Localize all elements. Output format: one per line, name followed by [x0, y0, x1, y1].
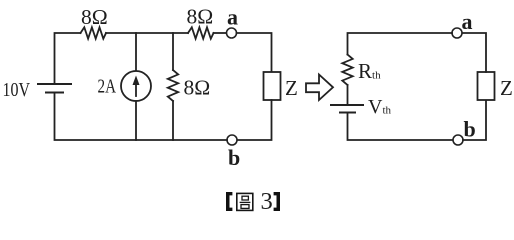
wire: shunt resistor branch top: [172, 33, 174, 70]
wire: Z to top-right corner to node a: [462, 33, 486, 72]
caption glyph for Chinese character tu (figure): [237, 193, 253, 210]
wire: Vth to bottom rail to node b: [348, 113, 454, 141]
svg-text:8Ω: 8Ω: [81, 5, 108, 29]
node b terminal (left circuit): [227, 135, 237, 145]
svg-text:a: a: [462, 9, 473, 34]
wire: top rail from R1 to R3 passing junctions: [106, 32, 188, 34]
wire: current source branch top: [135, 33, 137, 71]
current source I1 2A: [121, 71, 151, 101]
svg-text:3: 3: [261, 188, 273, 214]
wire: bottom rail from node b to battery: [55, 93, 228, 141]
wire: node b to bottom-right corner up to Z: [463, 100, 486, 140]
caption right lenticular bracket: [274, 192, 280, 211]
resistor R1 8ohm (top-left horizontal): [81, 27, 107, 38]
impedance Z box (left circuit): [264, 72, 281, 100]
node b terminal (thevenin): [453, 135, 463, 145]
svg-text:2A: 2A: [98, 77, 117, 98]
node a terminal (thevenin): [452, 28, 462, 38]
wire: node a to thevenin top-left: [451, 32, 453, 34]
resistor Rth (vertical): [342, 55, 352, 86]
svg-text:Z: Z: [500, 76, 513, 100]
impedance Z box (thevenin): [478, 72, 495, 100]
wire: shunt resistor branch bottom: [172, 101, 174, 140]
wire: current source branch bottom: [135, 101, 137, 140]
wire: top rail from R3 to node a: [214, 32, 227, 34]
wire: Rth to Vth: [347, 85, 349, 105]
caption left lenticular bracket: [226, 192, 232, 211]
svg-text:10V: 10V: [3, 80, 31, 101]
node a terminal (left circuit): [227, 28, 237, 38]
svg-text:8Ω: 8Ω: [184, 76, 211, 100]
resistor R3 8ohm (top-right horizontal): [188, 27, 214, 38]
svg-text:8Ω: 8Ω: [187, 5, 214, 29]
battery V1 10V plates: [38, 84, 71, 93]
wire: Z to bottom-right corner to node b: [237, 100, 272, 140]
wire: left circuit top rail segment from battery to R1: [55, 33, 81, 84]
svg-text:a: a: [227, 5, 238, 30]
svg-text:Z: Z: [285, 76, 298, 100]
battery Vth plates: [331, 105, 363, 113]
resistor R2 8ohm (vertical shunt): [168, 70, 178, 101]
wire: node a to top-right corner down to Z: [237, 33, 272, 72]
big open block arrow between circuits: [306, 75, 333, 101]
wire: thevenin left branch top: [348, 33, 453, 55]
svg-text:b: b: [228, 145, 240, 170]
svg-text:b: b: [464, 117, 476, 142]
